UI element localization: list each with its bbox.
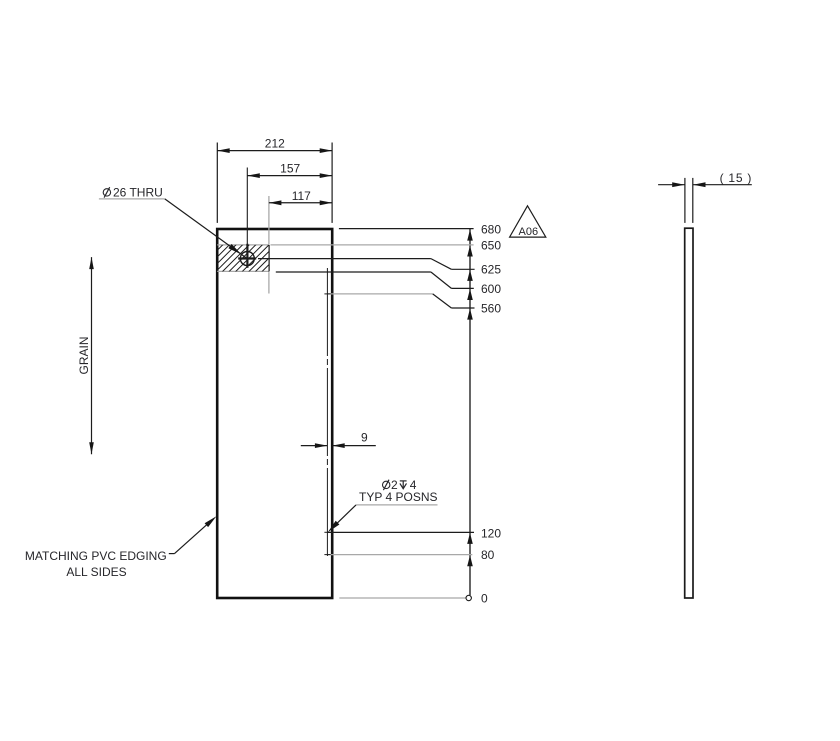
svg-text:( 15 ): ( 15 )	[720, 171, 753, 185]
svg-text:120: 120	[481, 526, 501, 540]
svg-text:26 THRU: 26 THRU	[113, 185, 163, 199]
svg-text:650: 650	[481, 239, 501, 253]
svg-text:GRAIN: GRAIN	[77, 336, 91, 374]
svg-text:MATCHING PVC EDGING: MATCHING PVC EDGING	[25, 549, 167, 563]
svg-text:A06: A06	[519, 226, 539, 238]
svg-text:80: 80	[481, 548, 495, 562]
svg-text:117: 117	[292, 189, 311, 203]
svg-text:9: 9	[361, 431, 368, 445]
svg-text:0: 0	[481, 592, 488, 606]
svg-text:600: 600	[481, 282, 501, 296]
svg-text:ALL SIDES: ALL SIDES	[66, 565, 126, 579]
svg-text:157: 157	[280, 161, 300, 175]
svg-text:680: 680	[481, 223, 501, 237]
svg-text:560: 560	[481, 301, 501, 315]
svg-text:212: 212	[265, 137, 285, 151]
svg-text:TYP 4 POSNS: TYP 4 POSNS	[359, 490, 437, 504]
svg-text:625: 625	[481, 263, 501, 277]
